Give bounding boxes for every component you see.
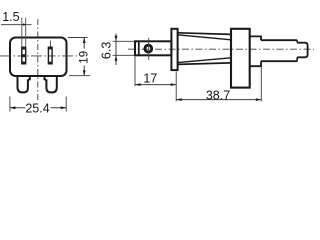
right slot centerline stub xyxy=(49,41,51,48)
svg-text:25.4: 25.4 xyxy=(25,101,49,115)
taper top outer line xyxy=(178,33,231,35)
dim 25.4 line xyxy=(10,107,66,109)
right leg (blade) xyxy=(45,76,57,92)
dim 1.5 arrows xyxy=(22,23,26,25)
dim 38.7 extension line right xyxy=(260,67,262,102)
dim 6.3 extension lines xyxy=(113,41,136,55)
hole in blade xyxy=(145,45,152,52)
boss behind flange 2 xyxy=(250,36,261,66)
left leg (blade) xyxy=(18,76,30,92)
dim 19 extension lines xyxy=(68,38,90,76)
main horizontal centerline xyxy=(128,48,314,50)
blade (side view) xyxy=(135,41,171,55)
dim 19 arrows xyxy=(83,38,86,44)
shaft xyxy=(261,40,297,61)
flange 1 xyxy=(171,29,177,70)
right slot xyxy=(48,47,52,64)
dim 25.4 text xyxy=(26,102,51,114)
dim 38.7 arrows xyxy=(176,98,182,101)
dim 38.7 line xyxy=(176,99,261,101)
svg-text:17: 17 xyxy=(143,72,157,86)
left slot caps xyxy=(22,47,26,49)
dim 17 arrows xyxy=(135,83,141,86)
taper top inner diagonal xyxy=(178,35,231,40)
dim 25.4 extension lines xyxy=(10,97,66,112)
right slot caps xyxy=(48,47,52,49)
taper bottom inner diagonal xyxy=(178,58,231,63)
dim 19 text xyxy=(79,49,88,66)
left slot xyxy=(22,47,26,64)
tip xyxy=(297,43,307,58)
svg-text:6.3: 6.3 xyxy=(100,42,114,59)
svg-text:38.7: 38.7 xyxy=(206,88,230,102)
dim 25.4 arrows xyxy=(10,106,16,109)
vertical centerline of body xyxy=(37,19,39,103)
dim 1.5 line xyxy=(1,24,32,26)
svg-text:19: 19 xyxy=(79,51,91,64)
dim 6.3 line xyxy=(115,34,117,66)
blade end inner line xyxy=(138,41,140,55)
flange 2 xyxy=(231,29,250,88)
taper bottom outer line xyxy=(178,63,231,65)
dim 19 line xyxy=(83,38,85,76)
dim 1.5 extension lines xyxy=(22,18,26,48)
hole vertical centerline xyxy=(148,38,150,60)
fuse body outline xyxy=(10,38,67,77)
tip step xyxy=(296,40,298,61)
dim 17 line xyxy=(135,84,176,86)
dim 17 extension lines xyxy=(135,57,176,102)
svg-text:1.5: 1.5 xyxy=(2,10,19,24)
dim 6.3 arrows (outside) xyxy=(115,36,118,42)
horizontal centerline of body xyxy=(0,55,79,57)
